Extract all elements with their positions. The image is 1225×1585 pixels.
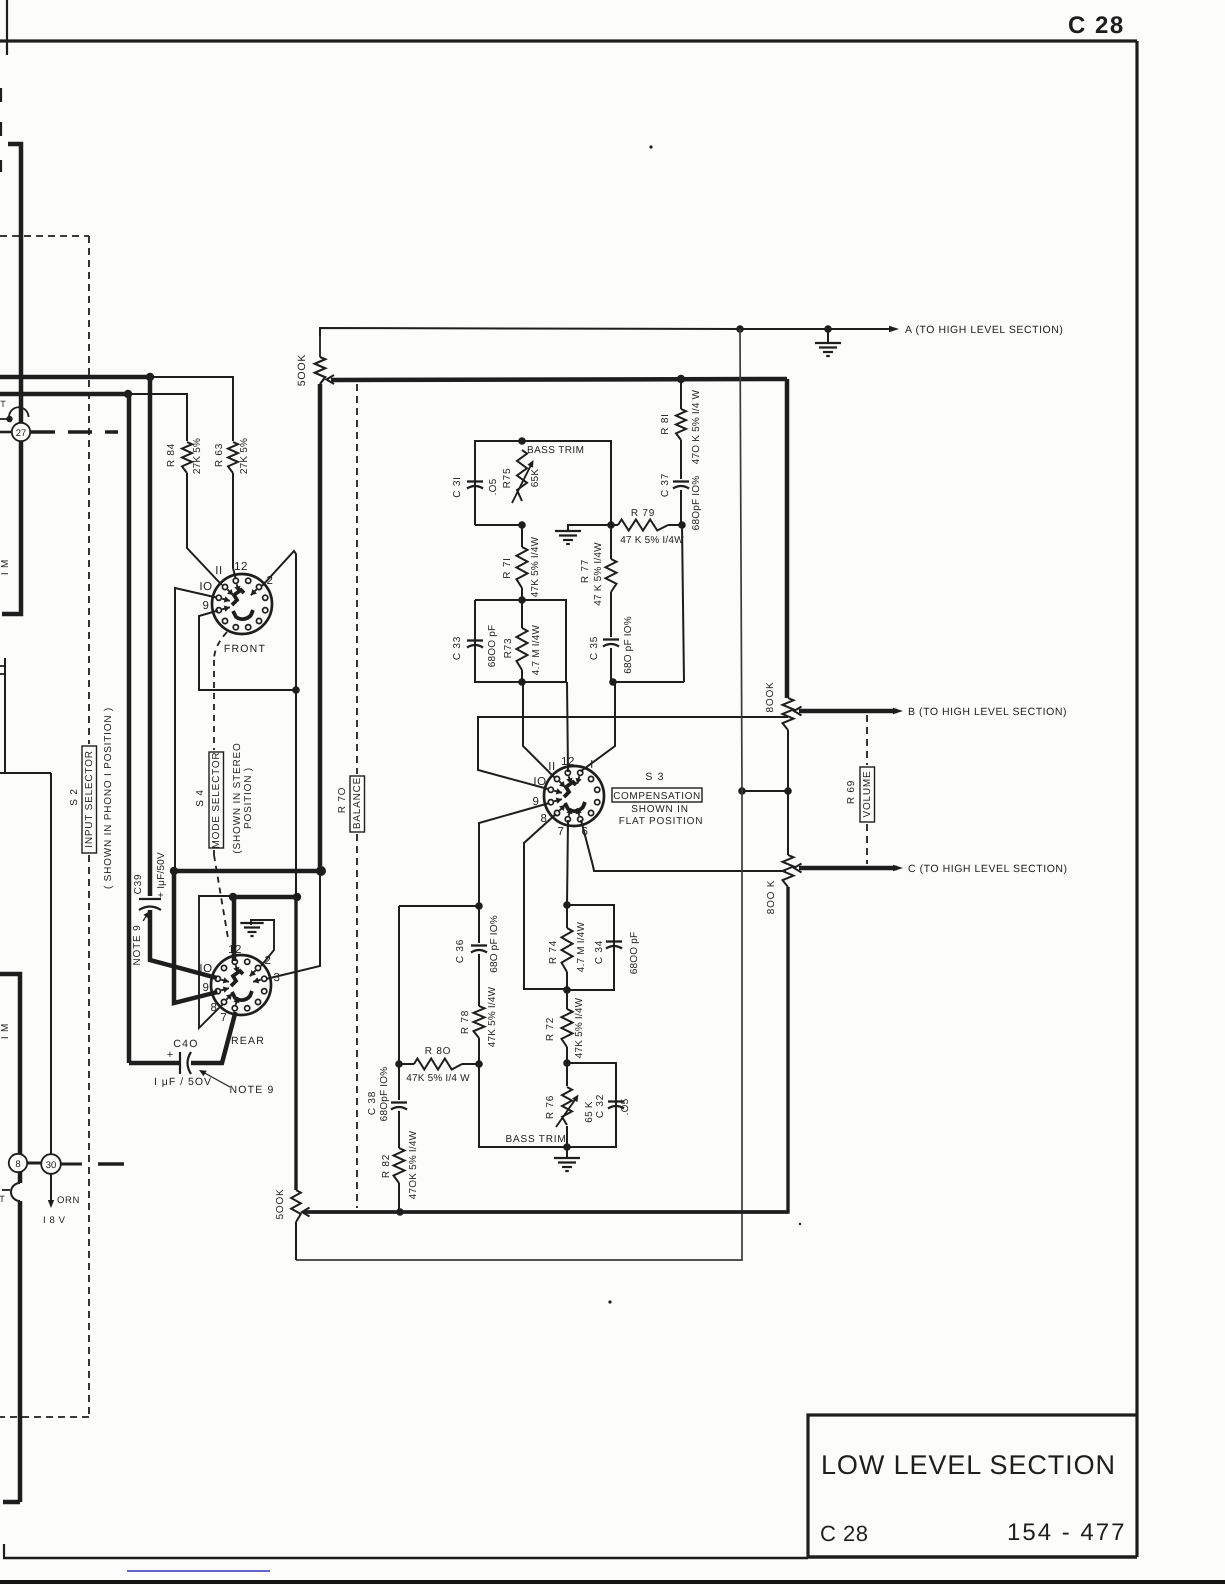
right border line (1135, 41, 1138, 1557)
label MODE SELECTOR boxed (209, 752, 224, 848)
C33 R73 box (475, 600, 566, 682)
svg-text:R 7O: R 7O (337, 787, 348, 814)
svg-text:BASS TRIM: BASS TRIM (506, 1134, 567, 1145)
svg-text:+: + (167, 1049, 173, 1061)
svg-text:ORN: ORN (57, 1195, 80, 1206)
S4 dashed mechanical link (214, 632, 227, 660)
title block box (808, 1415, 1137, 1557)
svg-text:7: 7 (558, 826, 565, 838)
bottom scan edge (0, 1580, 1225, 1584)
potentiometer 800K lower (783, 855, 794, 887)
ground at bass trim lower (566, 1147, 568, 1158)
rotary switch S4 FRONT body (212, 574, 272, 634)
node junction x400 y1212 (396, 1208, 404, 1216)
node junction x682 y525 (678, 521, 686, 529)
svg-text:R 69: R 69 (846, 780, 857, 804)
rotary switch S3 rotor (564, 782, 576, 797)
bus wire lower (thick) y394 (0, 392, 128, 397)
svg-text:R 7I: R 7I (502, 557, 513, 579)
svg-text:II: II (215, 565, 222, 577)
wire thick left lower bus (0, 974, 20, 1154)
svg-text:R 74: R 74 (548, 940, 559, 964)
svg-text:I 8 V: I 8 V (43, 1215, 66, 1226)
R74 C34 box (563, 901, 571, 909)
svg-text:.O5: .O5 (620, 1098, 631, 1115)
node junction x742 y791 (738, 787, 746, 795)
wire thick below terminal 8 (18, 1172, 23, 1183)
wire S3 pin 7 down (567, 820, 568, 905)
svg-text:+ IμF/50V: + IμF/50V (156, 852, 167, 898)
rotary switch S4 REAR pins (245, 959, 250, 964)
svg-text:R73: R73 (503, 638, 514, 659)
ground at REAR (251, 920, 274, 966)
bus wire across y871 (174, 869, 321, 874)
rotary switch S4 FRONT contact arrows (237, 584, 239, 592)
svg-text:C4O: C4O (173, 1038, 198, 1050)
dashed wire from terminal 27 (31, 430, 118, 433)
label INPUT SELECTOR boxed (82, 746, 97, 853)
wire S3 pin 1 up (581, 682, 616, 772)
svg-text:C 28: C 28 (820, 1521, 868, 1546)
svg-text:NOTE 9: NOTE 9 (132, 925, 143, 966)
svg-text:R 84: R 84 (166, 443, 177, 467)
svg-text:27K 5%: 27K 5% (192, 438, 203, 474)
node junction x788 y791 (784, 787, 792, 795)
svg-text:C 28: C 28 (1068, 12, 1125, 39)
wire ORN supply arrow (50, 1174, 52, 1202)
svg-text:POSITION ): POSITION ) (243, 767, 254, 829)
wire bus lower to R84 (128, 394, 187, 441)
svg-text:S 2: S 2 (69, 788, 80, 805)
wire x296 y690 to y897 (295, 690, 297, 897)
svg-text:68OO pF: 68OO pF (629, 932, 640, 975)
svg-text:IO: IO (199, 963, 212, 975)
node junction x522 y441 (518, 437, 526, 445)
node junction x479 y906 (475, 902, 483, 910)
wire C39 to REAR pin 10 (150, 910, 217, 978)
wire bus upper to R63 (150, 377, 233, 441)
svg-text:I μF / 5OV: I μF / 5OV (154, 1076, 212, 1088)
svg-text:8OOK: 8OOK (765, 682, 776, 713)
wire C35 bottom to R81 line (613, 681, 684, 683)
svg-text:R 8I: R 8I (660, 413, 671, 435)
capacitor C31 (467, 480, 483, 482)
svg-text:C39: C39 (133, 874, 144, 895)
wire R81 top (680, 379, 682, 409)
wire junction to REAR pin 3 (266, 871, 320, 979)
svg-text:BALANCE: BALANCE (352, 777, 363, 829)
svg-text:47K 5% I/4 W: 47K 5% I/4 W (406, 1073, 470, 1084)
wire FRONT pin 10 to left rail (175, 588, 217, 871)
terminal circle 27 (12, 423, 30, 441)
svg-text:.O5: .O5 (488, 478, 499, 495)
wire FRONT pin 2 up and down right (262, 551, 296, 690)
potentiometer 500K upper (319, 329, 321, 357)
svg-text:47 K 5% I/4W: 47 K 5% I/4W (620, 535, 684, 546)
left edge remnant marks (0, 665, 5, 667)
wire y897 to REAR pin 12 (232, 897, 237, 961)
resistor R78 (474, 1006, 485, 1038)
svg-text:4.7 M I/4W: 4.7 M I/4W (531, 624, 542, 675)
capacitor C40 (179, 1052, 181, 1074)
svg-text:NOTE 9: NOTE 9 (229, 1084, 274, 1096)
bus wire upper (thick) y377 (0, 375, 150, 380)
terminal circle 8 (9, 1154, 27, 1172)
svg-text:R 8O: R 8O (425, 1046, 452, 1057)
wiper arrow 800K lower (794, 864, 802, 873)
wiper line to C (799, 866, 897, 871)
wiper arrow 500K upper (327, 375, 335, 384)
top border line (0, 39, 1137, 42)
rotary switch S3 body (544, 766, 604, 826)
svg-text:154 - 477: 154 - 477 (1007, 1519, 1126, 1546)
ground at bass trim upper (568, 525, 611, 531)
svg-text:4.7 M I/4W: 4.7 M I/4W (576, 921, 587, 972)
wire right of terminal 30 with dash (61, 1163, 82, 1166)
capacitor C33 (467, 639, 483, 641)
node junction x611 y525 (607, 521, 615, 529)
rotary switch S3 contact arrows (569, 776, 571, 784)
wire S3 pin 9 down (479, 803, 550, 906)
svg-text:I M: I M (0, 559, 11, 575)
svg-text:SHOWN IN: SHOWN IN (631, 804, 689, 815)
svg-text:68OpF IO%: 68OpF IO% (691, 476, 702, 531)
wire bass trim bottom (475, 524, 522, 526)
svg-text:R 78: R 78 (460, 1010, 471, 1034)
svg-text:C 33: C 33 (452, 636, 463, 660)
wire x399 down from y906 (398, 906, 400, 1064)
svg-text:R 76: R 76 (545, 1095, 556, 1119)
wire R63 to FRONT pin 12 (233, 473, 236, 579)
R70 dashed link (356, 384, 358, 774)
svg-text:47OK 5% I/4W: 47OK 5% I/4W (408, 1130, 419, 1199)
wire R78 to bass trim lower (479, 1064, 567, 1147)
node junction bus lower x128 (124, 390, 132, 398)
svg-text:S 4: S 4 (195, 789, 206, 806)
arrow to A high level section (889, 326, 899, 332)
svg-text:C 35: C 35 (589, 636, 600, 660)
wire 500K lower bottom (295, 1222, 297, 1260)
svg-text:C 3I: C 3I (452, 476, 463, 498)
svg-text:T: T (0, 399, 6, 409)
node junction x828 y329 ground (824, 325, 832, 333)
svg-text:R 63: R 63 (214, 443, 225, 467)
svg-text:T: T (0, 1194, 5, 1204)
wire C37 junction down to y682 (682, 525, 684, 682)
node junction x681 y379 (677, 375, 685, 383)
capacitor C37 (680, 440, 682, 479)
resistor R81 (676, 409, 686, 440)
potentiometer 800K upper (783, 698, 794, 730)
svg-text:27K 5%: 27K 5% (239, 438, 250, 474)
svg-text:FLAT POSITION: FLAT POSITION (619, 816, 704, 827)
svg-text:( SHOWN IN PHONO I POSITION ): ( SHOWN IN PHONO I POSITION ) (103, 707, 114, 889)
svg-text:LOW LEVEL SECTION: LOW LEVEL SECTION (821, 1450, 1116, 1480)
rotary switch S4 REAR contact arrows (236, 965, 238, 973)
svg-text:A (TO HIGH LEVEL SECTION): A (TO HIGH LEVEL SECTION) (905, 324, 1063, 336)
svg-text:FRONT: FRONT (224, 643, 266, 655)
trimmer R76 (566, 1063, 568, 1086)
wire R84 to FRONT pin 11 (187, 473, 222, 585)
wire 800K lower down to bottom rail (304, 887, 788, 1212)
svg-text:3: 3 (274, 972, 281, 984)
resistor R71 (521, 525, 523, 547)
wire bus lower junction down to C40 (127, 394, 132, 1063)
svg-text:47O K 5% I/4 W: 47O K 5% I/4 W (691, 389, 702, 464)
rotary switch S4 FRONT pins (246, 578, 251, 583)
node junction x296 y690 (292, 686, 300, 694)
svg-text:27: 27 (16, 428, 27, 439)
svg-text:8: 8 (15, 1159, 20, 1170)
wire to terminal 30 upper (0, 658, 5, 773)
wire FRONT pin 9 down (199, 611, 296, 691)
potentiometer 500K lower (291, 1190, 301, 1222)
svg-text:R 79: R 79 (631, 508, 655, 519)
node junction bus upper x150 (146, 373, 154, 381)
capacitor C32 (608, 1100, 624, 1102)
svg-text:12: 12 (234, 561, 248, 573)
svg-text:9: 9 (203, 600, 210, 612)
wire S3 pin 12 up (567, 682, 568, 772)
svg-text:VOLUME: VOLUME (862, 770, 873, 817)
link wire x742 to x788 (742, 790, 788, 792)
bottom border line (3, 1557, 808, 1559)
svg-text:47 K 5% I/4W: 47 K 5% I/4W (593, 542, 604, 606)
rotary switch S4 REAR body (211, 955, 271, 1015)
wire between terminals 8 and 30 (27, 1162, 41, 1165)
svg-text:C 38: C 38 (367, 1091, 378, 1115)
svg-text:5OOK: 5OOK (275, 1189, 286, 1220)
svg-text:MODE SELECTOR: MODE SELECTOR (211, 752, 222, 849)
svg-text:47K 5% I/4W: 47K 5% I/4W (487, 986, 498, 1047)
wire bus upper junction down to C39 (148, 377, 153, 896)
svg-text:5OOK: 5OOK (296, 354, 308, 386)
svg-text:R 72: R 72 (545, 1017, 556, 1041)
svg-text:68O pF IO%: 68O pF IO% (489, 915, 500, 973)
capacitor C38 (398, 1064, 400, 1100)
wire S3 pin 10 to 800K (478, 717, 788, 789)
wire long vertical from A line (740, 329, 742, 791)
resistor R74 (566, 905, 568, 928)
node junction x321 y871 (316, 866, 326, 876)
svg-text:C 34: C 34 (594, 940, 605, 964)
svg-text:BASS TRIM: BASS TRIM (527, 445, 584, 456)
thin enclosure line around REAR (199, 896, 233, 1028)
svg-text:68OpF IO%: 68OpF IO% (379, 1067, 390, 1122)
speck (608, 1300, 611, 1303)
label VOLUME boxed (860, 767, 875, 822)
svg-text:R 82: R 82 (381, 1154, 392, 1178)
wire S3 pin 6 to C line (581, 820, 786, 871)
R69 dashed link (866, 715, 868, 765)
resistor R79 (611, 524, 618, 526)
label BALANCE boxed (350, 776, 365, 832)
svg-text:C 32: C 32 (595, 1094, 606, 1118)
bottom rail thick y1212 (307, 1210, 788, 1213)
svg-text:8OO K: 8OO K (766, 880, 777, 915)
wiper arrow 800K upper (794, 707, 802, 716)
blue scan artifact line (127, 1570, 270, 1572)
svg-text:IO: IO (199, 581, 212, 593)
resistor R82 (398, 1111, 400, 1148)
svg-text:(SHOWN IN STEREO: (SHOWN IN STEREO (232, 742, 243, 853)
rotary switch S4 REAR rotor (231, 971, 243, 986)
svg-text:B (TO HIGH LEVEL SECTION): B (TO HIGH LEVEL SECTION) (908, 706, 1067, 718)
wire top rail to A (320, 328, 893, 336)
terminal circle 30 (41, 1154, 61, 1174)
svg-text:68O pF IO%: 68O pF IO% (623, 616, 634, 674)
wire thick to 800K upper (785, 379, 790, 698)
left border remnant top (6, 0, 8, 55)
wire C40 to REAR pin 7 (191, 1012, 236, 1063)
wire stub top left corner (2, 144, 21, 614)
svg-text:7: 7 (221, 1012, 228, 1024)
capacitor C35 (610, 592, 612, 637)
wire 500K upper to junction (318, 384, 323, 871)
svg-text:65 K: 65 K (584, 1101, 595, 1123)
rotary switch S3 pins (578, 770, 583, 775)
loop jog lower (11, 1183, 20, 1201)
resistor R72 (562, 1009, 573, 1047)
svg-text:REAR: REAR (231, 1035, 265, 1047)
wire S3 pin 11 up (523, 682, 555, 778)
svg-text:C (TO HIGH LEVEL SECTION): C (TO HIGH LEVEL SECTION) (908, 863, 1068, 875)
svg-text:INPUT SELECTOR: INPUT SELECTOR (84, 750, 95, 848)
resistor R63 (228, 442, 238, 473)
svg-text:COMPENSATION: COMPENSATION (613, 791, 701, 802)
svg-text:65K: 65K (530, 469, 541, 488)
resistor R84 (182, 442, 192, 473)
resistor R80 (395, 1060, 403, 1068)
capacitor C36 (478, 906, 480, 943)
S2 dashed boundary (0, 235, 89, 237)
wire thick y897 segment (233, 895, 297, 900)
wire S3 pin 8 down (524, 814, 567, 989)
node junction x613 y682 (609, 678, 617, 686)
ground near A (827, 329, 829, 343)
svg-text:30: 30 (46, 1160, 57, 1171)
wire y906 horizontal (399, 905, 479, 907)
wire thick rail left of switches (170, 867, 178, 875)
svg-text:C 36: C 36 (455, 939, 466, 963)
node junction x740 y329 (736, 325, 744, 333)
svg-text:R75: R75 (502, 468, 513, 489)
svg-text:47K 5% I/4W: 47K 5% I/4W (530, 536, 541, 597)
svg-text:C 37: C 37 (660, 473, 671, 497)
R76 C32 box (563, 1059, 571, 1067)
label COMPENSATION boxed (612, 788, 702, 802)
capacitor C34 (606, 940, 622, 942)
wire 800K upper to lower (787, 730, 789, 855)
resistor R77 (610, 525, 612, 559)
svg-text:R 77: R 77 (580, 559, 591, 583)
svg-text:I M: I M (0, 1023, 11, 1039)
wiper line to B (799, 709, 897, 714)
trimmer R75 (517, 450, 527, 501)
wire x296 y897 to lower 500K (294, 897, 297, 1190)
capacitor C39 (139, 898, 161, 900)
rotary switch S4 FRONT rotor (232, 590, 244, 605)
svg-text:S 3: S 3 (645, 771, 664, 783)
resistor R73 (517, 628, 528, 670)
svg-text:68OO pF: 68OO pF (487, 625, 498, 668)
wiper arrow 500K lower (302, 1208, 310, 1217)
bass trim upper box (475, 441, 611, 525)
wiper bus to balance line (331, 379, 787, 380)
svg-text:47K 5% I/4W: 47K 5% I/4W (574, 997, 585, 1058)
